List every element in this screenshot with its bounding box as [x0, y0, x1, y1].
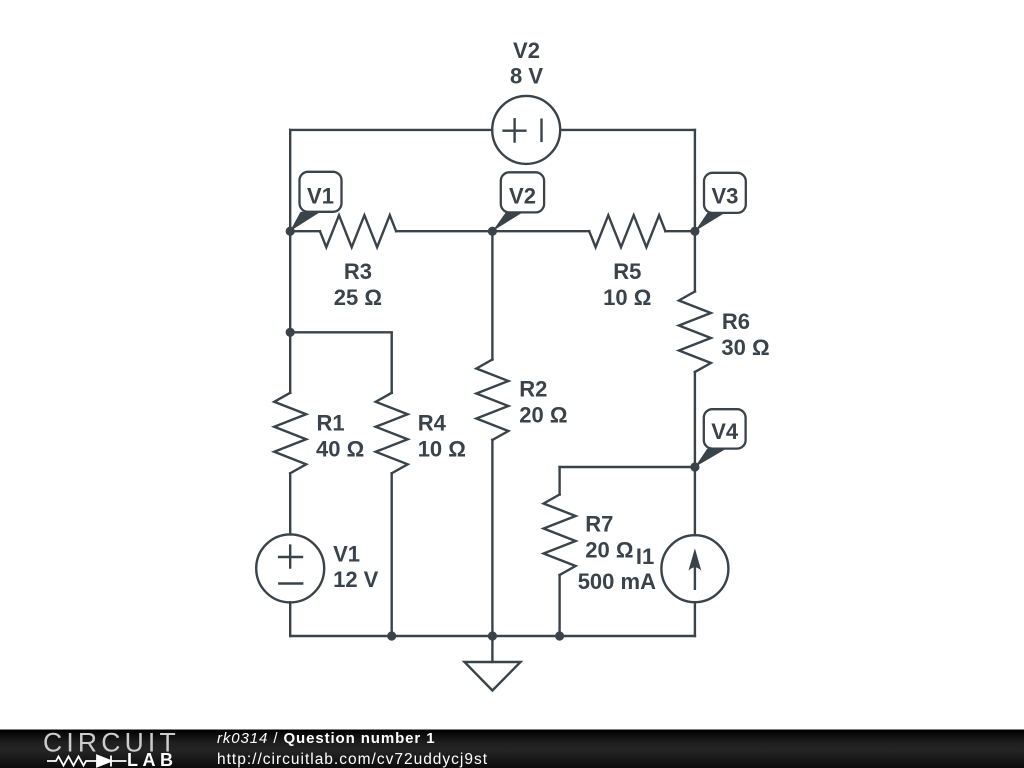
svg-text:V2: V2 — [509, 184, 536, 209]
svg-text:R2: R2 — [519, 377, 547, 402]
wire R5 to node V3 — [665, 230, 695, 232]
voltage source V2 — [492, 96, 560, 164]
svg-text:20 Ω: 20 Ω — [519, 403, 567, 428]
svg-text:V2: V2 — [513, 38, 540, 63]
wire I1 bottom — [694, 602, 696, 636]
wire right vertical (corner to V3 node) — [694, 130, 696, 231]
wire R3 to node V2 — [396, 230, 492, 232]
resistor R4 — [376, 393, 408, 474]
resistor R3 — [320, 215, 396, 247]
node V2 — [488, 227, 497, 236]
junction R7 bottom — [555, 631, 564, 640]
label R5 value — [603, 259, 651, 310]
svg-text:V3: V3 — [711, 184, 738, 209]
label R4 value — [418, 411, 466, 462]
voltage source V1 — [256, 534, 324, 602]
label I1 value — [578, 544, 656, 594]
svg-text:12 V: 12 V — [333, 567, 379, 592]
wire R7 branch top — [558, 467, 560, 495]
label R7 value — [585, 512, 633, 563]
footer bar — [0, 730, 1024, 768]
resistor R2 — [476, 360, 508, 441]
wire node V3 to R6 — [694, 231, 696, 291]
wire node A to R4 branch — [290, 332, 392, 393]
label R6 value — [721, 309, 769, 360]
wire R2 bottom — [491, 440, 493, 636]
node V4 — [690, 462, 699, 471]
wire R7 bottom — [558, 575, 560, 636]
junction ground — [488, 631, 497, 640]
resistor R5 — [589, 215, 665, 247]
svg-text:http://circuitlab.com/cv72uddy: http://circuitlab.com/cv72uddycj9st — [217, 751, 488, 768]
label R1 value — [316, 411, 364, 462]
svg-text:V1: V1 — [307, 183, 334, 208]
svg-text:R5: R5 — [613, 259, 641, 284]
svg-text:R1: R1 — [317, 411, 345, 436]
svg-text:20 Ω: 20 Ω — [585, 537, 633, 562]
wire bottom rail — [290, 635, 695, 637]
current source I1 — [661, 535, 728, 602]
svg-text:25 Ω: 25 Ω — [334, 285, 382, 310]
wire left vertical (V1 node to top-left corner) — [289, 130, 291, 231]
logo doodle resistor-diode — [47, 756, 127, 767]
svg-text:R4: R4 — [418, 411, 447, 436]
wire node V2 to R5 — [492, 230, 589, 232]
node V3 — [690, 227, 699, 236]
resistor R6 — [679, 292, 711, 373]
wire top right (V2 source to corner) — [560, 129, 695, 131]
wire top left (corner to V2 source) — [290, 129, 492, 131]
svg-text:30 Ω: 30 Ω — [721, 335, 769, 360]
svg-text:rk0314 / Question number 1: rk0314 / Question number 1 — [217, 730, 435, 747]
svg-text:V4: V4 — [711, 419, 739, 444]
callout V3 — [695, 173, 746, 231]
resistor R7 — [544, 495, 576, 576]
label R3 value — [334, 259, 382, 310]
svg-text:10 Ω: 10 Ω — [603, 285, 651, 310]
junction R4 bottom — [387, 631, 396, 640]
wire node V1 down to node A — [289, 231, 291, 332]
svg-text:8 V: 8 V — [510, 63, 543, 88]
svg-text:R7: R7 — [585, 512, 613, 537]
svg-text:R6: R6 — [722, 309, 750, 334]
callout V2 — [492, 172, 544, 231]
node A — [286, 328, 295, 337]
svg-text:R3: R3 — [344, 259, 372, 284]
wire node V4 to I1 — [694, 467, 696, 535]
label V1 value — [333, 541, 379, 592]
label V2 value — [510, 38, 543, 89]
wire R6 to node V4 — [694, 372, 696, 467]
svg-text:500 mA: 500 mA — [578, 569, 656, 594]
callout V1 — [290, 172, 342, 231]
wire R4 bottom — [391, 473, 393, 636]
svg-text:I1: I1 — [636, 544, 654, 569]
svg-text:40 Ω: 40 Ω — [316, 436, 364, 461]
svg-text:10 Ω: 10 Ω — [418, 436, 466, 461]
callout V4 — [695, 409, 746, 467]
node V1 — [286, 227, 295, 236]
svg-text:LAB: LAB — [127, 750, 178, 768]
wire V1 source bottom — [289, 602, 291, 636]
label R2 value — [519, 377, 567, 428]
wire node A down to R1 — [289, 332, 291, 393]
wire node V1 to R3 — [290, 230, 320, 232]
wire node V2 down to R2 — [491, 231, 493, 359]
ground — [465, 636, 521, 691]
svg-text:V1: V1 — [333, 541, 360, 566]
wire R1 to V1 source — [289, 473, 291, 534]
resistor R1 — [274, 393, 306, 474]
wire node V4 left to R7 branch — [560, 466, 695, 468]
